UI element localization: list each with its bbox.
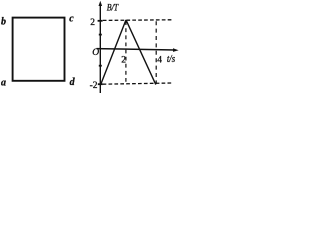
svg-text:O: O xyxy=(92,48,99,58)
waveform falling segment xyxy=(126,20,156,85)
svg-text:c: c xyxy=(69,14,74,25)
x-axis (t axis) xyxy=(97,49,176,50)
svg-text:4: 4 xyxy=(157,56,162,66)
dashed line y=-2 xyxy=(103,83,172,84)
y tick +2 xyxy=(98,20,103,22)
square loop abcd xyxy=(13,18,65,81)
y tick -2 xyxy=(98,83,103,85)
svg-text:b: b xyxy=(1,17,6,28)
svg-text:2: 2 xyxy=(90,18,95,28)
y tick -1 xyxy=(99,65,102,67)
svg-text:2: 2 xyxy=(121,55,126,65)
x-axis arrowhead xyxy=(173,48,179,52)
svg-text:B/T: B/T xyxy=(107,2,119,12)
svg-text:d: d xyxy=(70,77,76,88)
svg-text:-2: -2 xyxy=(90,81,98,91)
svg-text:a: a xyxy=(1,78,6,89)
dashed line y=+2 xyxy=(103,19,172,22)
waveform rising segment xyxy=(101,20,126,84)
y tick +1 xyxy=(99,34,102,36)
dashed vertical x=2 xyxy=(125,21,127,83)
y-axis (B axis) xyxy=(99,5,101,94)
y-axis arrowhead xyxy=(99,1,103,6)
svg-text:t/s: t/s xyxy=(167,54,175,65)
dashed vertical x=4 xyxy=(155,21,157,84)
